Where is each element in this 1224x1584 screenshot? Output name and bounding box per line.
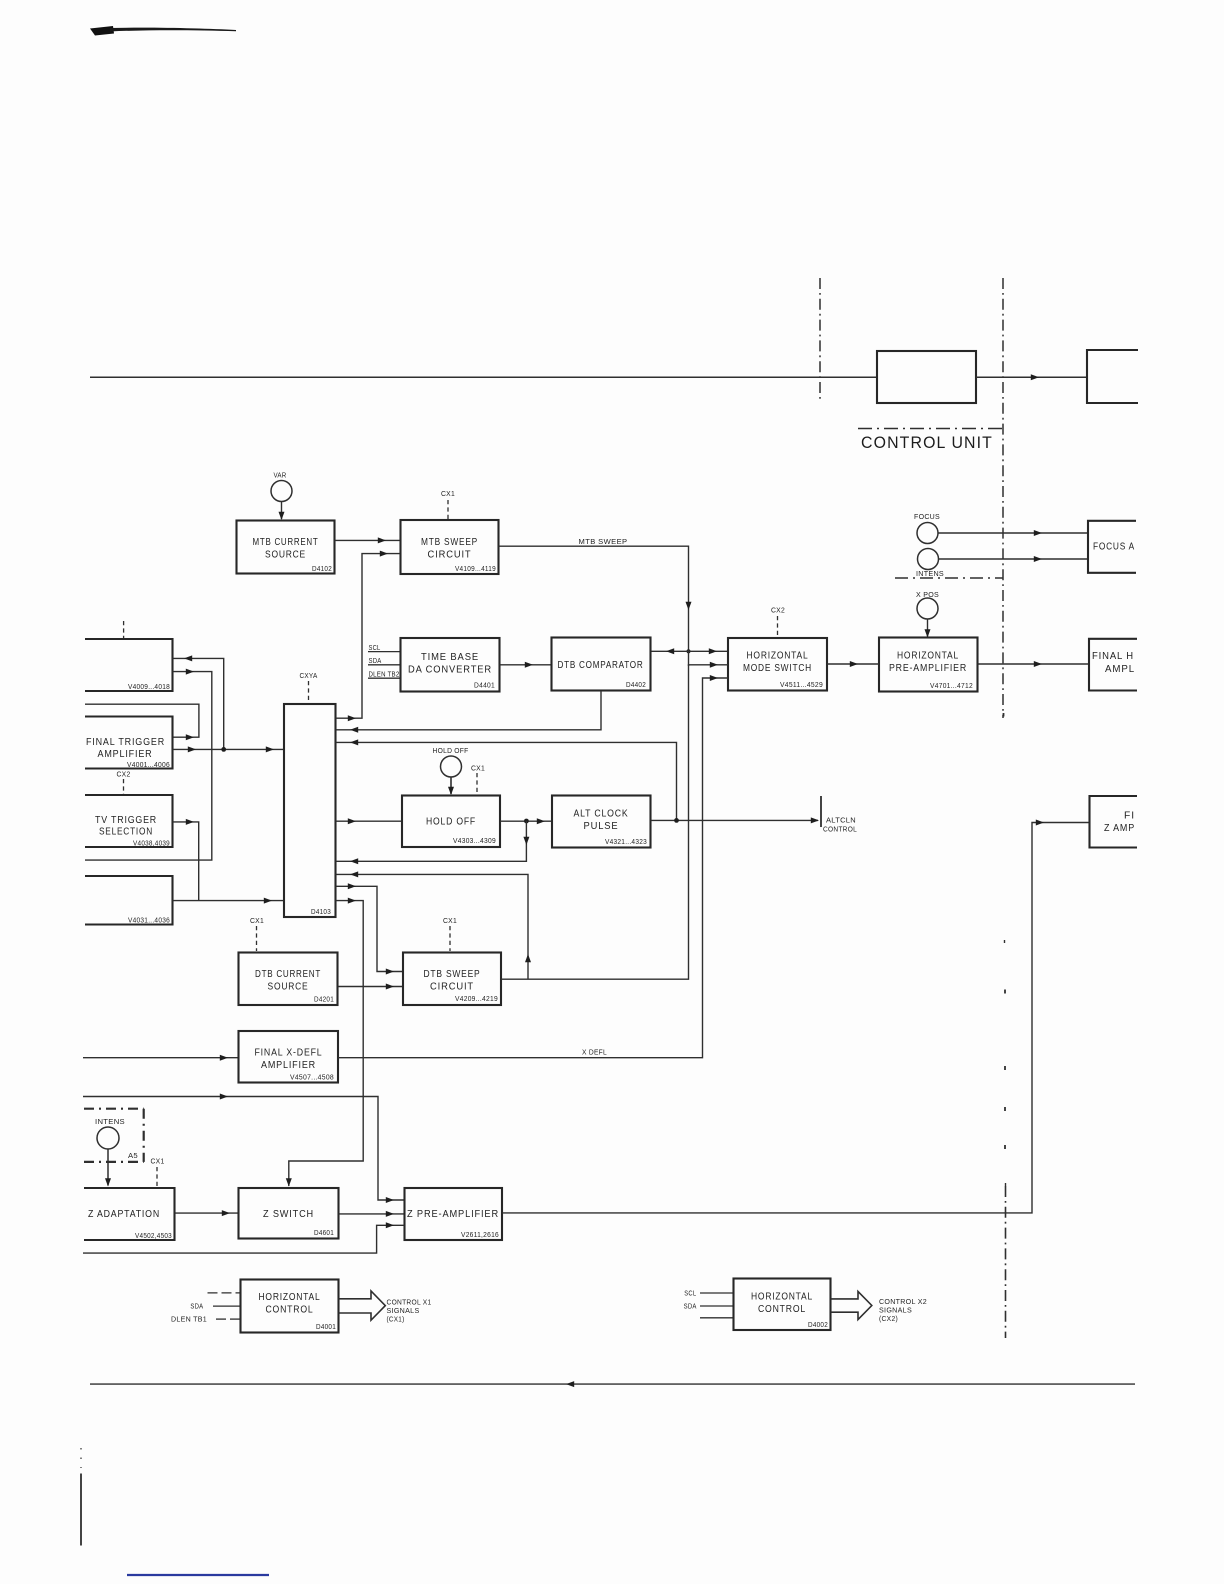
wire hold off output branch down into D4103 — [336, 821, 530, 864]
bus arrow CONTROL X2 SIGNALS — [831, 1292, 872, 1320]
svg-text:(CX2): (CX2) — [879, 1314, 898, 1323]
potentiometer VAR — [271, 471, 292, 502]
svg-text:PULSE: PULSE — [584, 821, 619, 832]
svg-text:D4102: D4102 — [312, 564, 332, 573]
connector dashed stub above V4009 block — [123, 621, 125, 638]
svg-text:CIRCUIT: CIRCUIT — [430, 982, 474, 993]
svg-text:HOLD OFF: HOLD OFF — [433, 746, 469, 755]
svg-text:TIME BASE: TIME BASE — [421, 652, 479, 663]
svg-text:CX2: CX2 — [771, 606, 785, 615]
svg-text:Z PRE-AMPLIFIER: Z PRE-AMPLIFIER — [407, 1209, 499, 1220]
svg-text:V4701...4712: V4701...4712 — [930, 681, 973, 690]
svg-text:DLEN TB1: DLEN TB1 — [171, 1315, 207, 1324]
svg-text:Z AMP: Z AMP — [1104, 823, 1135, 834]
svg-text:A5: A5 — [128, 1151, 138, 1160]
block DTB CURRENT SOURCE D4201 — [239, 953, 338, 1006]
svg-text:DA CONVERTER: DA CONVERTER — [408, 665, 492, 676]
svg-text:CONTROL: CONTROL — [758, 1304, 806, 1315]
wire control unit box A to box B — [976, 374, 1087, 380]
svg-text:PRE-AMPLIFIER: PRE-AMPLIFIER — [889, 663, 967, 674]
wire final X-defl output up to mode switch input 3 — [338, 675, 728, 1058]
svg-text:SDA: SDA — [684, 1302, 697, 1311]
svg-text:HORIZONTAL: HORIZONTAL — [751, 1292, 813, 1303]
svg-text:CIRCUIT: CIRCUIT — [428, 550, 472, 561]
wire Z adaptation to Z switch — [175, 1210, 239, 1216]
connector label CX2 above horizontal mode switch — [771, 606, 785, 638]
wire MTB sweep output down to DTB comparator junction — [499, 546, 692, 650]
block FINAL X-DEFL AMPLIFIER V4507..4508 — [239, 1031, 339, 1083]
wire lower input from page edge to Z pre-amplifier input 3 — [83, 1222, 405, 1253]
block V4031..4036 (clipped at left) — [85, 876, 173, 925]
svg-text:AMPL: AMPL — [1105, 664, 1135, 675]
wire pre-amplifier to final horizontal amplifier — [978, 661, 1090, 667]
svg-text:MODE SWITCH: MODE SWITCH — [743, 663, 812, 674]
boundary dash-dot vertical CX2 boundary lower dotted part — [1004, 713, 1006, 1186]
wire DTB sweep output branch up into D4103 — [336, 871, 532, 979]
wire TV trigger selection output down to V4031 output line — [173, 819, 199, 901]
wire DLEN TB2 input stub time base DA — [368, 670, 400, 679]
svg-text:SELECTION: SELECTION — [99, 827, 153, 838]
area boundary A5 dash-dot frame around INTENS — [84, 1109, 144, 1162]
potentiometer HOLD OFF — [433, 746, 469, 777]
wire DTB comparator bottom feedback into D4103 — [336, 691, 602, 733]
svg-text:V4303...4309: V4303...4309 — [453, 836, 496, 845]
svg-text:HOLD OFF: HOLD OFF — [426, 817, 476, 828]
block FOCUS AMPLIFIER (clipped) — [1088, 521, 1136, 573]
wire X POS to horizontal pre-amplifier — [925, 619, 931, 638]
potentiometer FOCUS — [914, 512, 940, 544]
svg-text:V4511...4529: V4511...4529 — [780, 680, 823, 689]
block TIME BASE DA CONVERTER D4401 — [401, 638, 500, 692]
wire time base DA converter to DTB comparator — [500, 662, 552, 668]
block HORIZONTAL MODE SWITCH V4511..4529 — [728, 638, 827, 691]
svg-text:AMPLIFIER: AMPLIFIER — [261, 1060, 316, 1071]
svg-text:SCL: SCL — [369, 643, 381, 652]
svg-text:SDA: SDA — [369, 656, 382, 665]
wire Z input from page edge down to Z pre-amplifier input 1 — [83, 1094, 404, 1204]
svg-text:X DEFL: X DEFL — [582, 1048, 607, 1057]
svg-text:CONTROL: CONTROL — [266, 1305, 314, 1316]
svg-text:HORIZONTAL: HORIZONTAL — [259, 1292, 321, 1303]
wire DLEN TB1 input stub left horizontal control — [171, 1315, 241, 1324]
wire V4031 output to switch D4103 — [173, 898, 285, 904]
svg-text:FINAL X-DEFL: FINAL X-DEFL — [255, 1048, 323, 1059]
svg-text:DTB CURRENT: DTB CURRENT — [255, 969, 321, 980]
svg-text:V4209...4219: V4209...4219 — [455, 994, 498, 1003]
svg-text:HORIZONTAL: HORIZONTAL — [747, 651, 809, 662]
block MTB CURRENT SOURCE D4102 — [237, 521, 335, 574]
svg-text:MTB CURRENT: MTB CURRENT — [253, 537, 319, 548]
svg-text:DTB COMPARATOR: DTB COMPARATOR — [558, 660, 644, 671]
wire input stub 1 left horizontal control — [208, 1292, 241, 1294]
wire HOLD OFF knob into hold off block — [448, 777, 454, 795]
svg-text:FINAL TRIGGER: FINAL TRIGGER — [86, 737, 165, 748]
svg-text:AMPLIFIER: AMPLIFIER — [98, 749, 153, 760]
svg-text:V4109...4119: V4109...4119 — [455, 564, 496, 573]
control unit box U-A (unlabelled) — [877, 351, 976, 403]
block switch D4103 (CXYA) — [284, 704, 336, 917]
svg-text:SOURCE: SOURCE — [268, 982, 309, 993]
wire D4103 to hold off block — [336, 818, 403, 824]
bus arrow CONTROL X1 SIGNALS — [339, 1291, 386, 1320]
wire DTB sweep output up to mode switch input 2 — [501, 650, 728, 979]
node junction MTB sweep / mode switch line — [686, 649, 690, 653]
control unit box U-B (unlabelled, clipped at page edge) — [1087, 350, 1138, 403]
svg-text:V4009...4018: V4009...4018 — [128, 682, 170, 691]
wire top horizontal bus into control unit — [90, 376, 877, 378]
boundary dash-dot vertical left of control unit — [819, 278, 821, 402]
wire alt clock branch feedback into D4103 — [336, 739, 677, 820]
label X DEFL on wire — [582, 1048, 607, 1057]
wire D4103 to Z switch via L route — [286, 898, 363, 1187]
wire VAR to MTB current source — [279, 502, 285, 521]
svg-text:(CX1): (CX1) — [387, 1315, 405, 1324]
wire V4009 second output to left page edge — [85, 669, 212, 861]
connector label CX2 above TV trigger selection — [117, 770, 131, 795]
svg-text:TV TRIGGER: TV TRIGGER — [95, 815, 157, 826]
wire alt clock pulse output to ALTCLN control — [651, 817, 820, 823]
scan smudge top-left — [90, 26, 236, 36]
svg-text:V4031...4036: V4031...4036 — [128, 916, 170, 925]
svg-text:HORIZONTAL: HORIZONTAL — [897, 651, 959, 662]
svg-text:MTB SWEEP: MTB SWEEP — [579, 537, 628, 546]
svg-text:V2611,2616: V2611,2616 — [461, 1230, 499, 1239]
block DTB SWEEP CIRCUIT V4209..4219 — [403, 953, 501, 1006]
label CONTROL X1 SIGNALS (CX1) — [387, 1298, 432, 1324]
svg-text:DTB SWEEP: DTB SWEEP — [424, 969, 481, 980]
wire Z pre-amplifier output to final Z amplifier — [502, 820, 1089, 1213]
wire final trigger amplifier output to switch D4103 — [173, 746, 285, 752]
svg-text:V4321...4323: V4321...4323 — [605, 837, 647, 846]
wire bottom-left page edge vertical — [80, 1448, 82, 1546]
svg-text:CX1: CX1 — [250, 916, 264, 925]
wire D4103 down to DTB sweep circuit first input — [336, 883, 404, 974]
block HOLD OFF V4303..4309 — [402, 796, 500, 848]
block FINAL TRIGGER AMPLIFIER V4001..4006 (clipped at left) — [85, 717, 173, 770]
block FINAL HORIZONTAL AMPLIFIER (clipped) — [1089, 639, 1137, 691]
wire SDA input stub time base DA — [368, 656, 400, 665]
svg-text:V4001...4006: V4001...4006 — [127, 760, 170, 769]
boundary dash-dot horizontal below INTENS — [895, 577, 1003, 579]
svg-text:V4502,4503: V4502,4503 — [135, 1231, 172, 1240]
wire input to final X-defl amplifier from page edge — [83, 1055, 238, 1061]
block Z SWITCH D4601 — [239, 1188, 339, 1239]
wire SCL input stub time base DA — [368, 643, 400, 652]
node junction hold off output — [524, 819, 529, 824]
wire DTB comparator to horizontal mode switch input 1 — [651, 648, 729, 654]
wire Z switch to Z pre-amplifier — [339, 1211, 405, 1217]
wire SDA input stub right horizontal control — [684, 1302, 734, 1311]
svg-text:D4401: D4401 — [474, 681, 495, 690]
svg-text:D4201: D4201 — [314, 995, 334, 1004]
svg-text:D4002: D4002 — [808, 1320, 828, 1329]
label ALTCLN CONTROL — [823, 816, 857, 834]
svg-text:FOCUS A: FOCUS A — [1093, 542, 1135, 553]
svg-text:CX1: CX1 — [151, 1157, 165, 1166]
svg-text:FOCUS: FOCUS — [914, 512, 940, 521]
svg-text:V4507...4508: V4507...4508 — [290, 1073, 334, 1082]
connector label CX1 above DTB current source — [250, 916, 264, 951]
svg-text:Z ADAPTATION: Z ADAPTATION — [88, 1209, 160, 1220]
wire input stub 3 right horizontal control — [700, 1317, 734, 1319]
svg-text:ALTCLN: ALTCLN — [826, 816, 856, 825]
svg-text:D4402: D4402 — [626, 680, 646, 689]
block Z PRE-AMPLIFIER V2611,2616 — [405, 1188, 503, 1240]
wire INTENS to focus amplifier — [939, 556, 1089, 562]
wire bottom return bus — [90, 1381, 1135, 1387]
svg-text:V4038,4039: V4038,4039 — [133, 839, 170, 848]
block FINAL Z AMPLIFIER (clipped) — [1090, 796, 1138, 848]
wire SCL input stub right horizontal control — [684, 1289, 733, 1298]
connector label CX1 above DTB sweep circuit — [443, 916, 457, 951]
svg-text:VAR: VAR — [274, 471, 287, 480]
svg-text:ALT CLOCK: ALT CLOCK — [574, 809, 629, 820]
connector label CX1 at Z adaptation — [151, 1157, 165, 1188]
wire feedback into V4009 block — [173, 655, 224, 749]
svg-text:SOURCE: SOURCE — [265, 550, 306, 561]
wire FOCUS to focus amplifier — [939, 530, 1089, 536]
svg-text:SCL: SCL — [684, 1289, 696, 1298]
block TV TRIGGER SELECTION V4038,4039 (clipped at left) — [85, 795, 173, 848]
wire DTB current source to DTB sweep circuit — [338, 984, 403, 990]
svg-text:D4103: D4103 — [311, 907, 331, 916]
svg-text:INTENS: INTENS — [95, 1117, 125, 1126]
node junction alt clock output branch — [674, 818, 679, 823]
boundary dash-dot vertical CX2 main boundary upper part — [1002, 278, 1004, 718]
label CONTROL X2 SIGNALS (CX2) — [879, 1297, 927, 1323]
wire SDA input stub left horizontal control — [190, 1302, 240, 1311]
block HORIZONTAL PRE-AMPLIFIER V4701..4712 — [879, 638, 978, 692]
connector label CX1 at hold off — [471, 764, 485, 796]
svg-text:DLEN TB2: DLEN TB2 — [369, 670, 400, 679]
terminal bar ALTCLN — [820, 796, 822, 827]
svg-text:MTB SWEEP: MTB SWEEP — [421, 537, 478, 548]
connector label CXYA above switch D4103 — [300, 671, 319, 703]
svg-text:CX1: CX1 — [443, 916, 457, 925]
svg-text:CX1: CX1 — [441, 489, 455, 498]
block MTB SWEEP CIRCUIT V4109..4119 — [401, 520, 499, 574]
wire D4103 up to MTB sweep circuit second input — [336, 551, 401, 722]
potentiometer INTENS lower — [95, 1117, 125, 1149]
svg-text:CXYA: CXYA — [300, 671, 319, 680]
wire mode switch to horizontal pre-amplifier — [827, 661, 879, 667]
block V4009..4018 (clipped at left) — [85, 639, 173, 691]
svg-text:CX1: CX1 — [471, 764, 485, 773]
node junction on trigger output — [221, 747, 226, 752]
label CONTROL UNIT — [861, 433, 993, 452]
block ALT CLOCK PULSE V4321..4323 — [552, 796, 651, 848]
wire hold off to alt clock pulse — [500, 818, 552, 824]
pen mark blue line bottom — [127, 1574, 269, 1576]
svg-text:D4601: D4601 — [314, 1228, 334, 1237]
boundary dash-dot horizontal under control unit — [858, 428, 1003, 430]
wire INTENS knob to Z adaptation — [105, 1150, 111, 1187]
svg-text:CX2: CX2 — [117, 770, 131, 779]
svg-text:INTENS: INTENS — [916, 569, 944, 578]
svg-text:FI: FI — [1124, 811, 1135, 822]
connector label CX1 above MTB sweep circuit — [441, 489, 455, 519]
block Z ADAPTATION V4502,4503 (clipped at left) — [84, 1188, 175, 1240]
svg-text:SDA: SDA — [190, 1302, 203, 1311]
block HORIZONTAL CONTROL D4001 — [241, 1280, 339, 1333]
svg-text:Z SWITCH: Z SWITCH — [263, 1209, 314, 1220]
svg-text:FINAL H: FINAL H — [1092, 651, 1134, 662]
wire MTB current source to MTB sweep circuit — [335, 537, 401, 543]
boundary dash-dot vertical CX2 boundary bottom part — [1005, 1186, 1007, 1338]
svg-text:D4001: D4001 — [316, 1322, 336, 1331]
svg-text:CONTROL UNIT: CONTROL UNIT — [861, 433, 993, 452]
potentiometer INTENS — [916, 549, 944, 579]
wire above final trigger amplifier to left page edge — [85, 704, 199, 740]
label MTB SWEEP on wire — [579, 537, 628, 546]
svg-text:CONTROL: CONTROL — [823, 825, 857, 834]
label A5 — [128, 1151, 138, 1160]
potentiometer X POS — [916, 590, 939, 619]
block HORIZONTAL CONTROL D4002 — [734, 1279, 831, 1331]
block DTB COMPARATOR D4402 — [552, 638, 651, 691]
